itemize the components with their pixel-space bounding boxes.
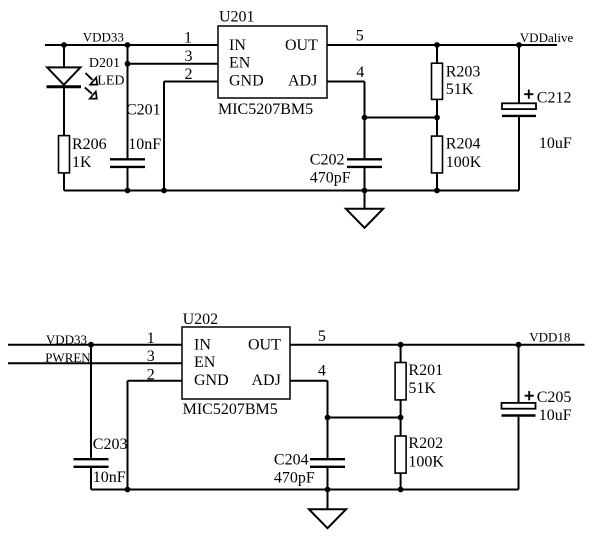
svg-text:VDD33: VDD33 (83, 29, 124, 44)
svg-text:PWREN: PWREN (45, 350, 91, 365)
svg-text:10nF: 10nF (93, 469, 126, 486)
svg-text:470pF: 470pF (310, 169, 351, 186)
svg-text:100K: 100K (446, 154, 482, 171)
svg-text:C201: C201 (126, 101, 161, 118)
svg-text:IN: IN (194, 336, 211, 353)
svg-text:10uF: 10uF (539, 135, 572, 152)
svg-text:5: 5 (318, 328, 326, 345)
svg-text:R202: R202 (408, 435, 443, 452)
svg-text:EN: EN (229, 54, 251, 71)
svg-text:ADJ: ADJ (288, 72, 317, 89)
svg-text:470pF: 470pF (274, 470, 315, 487)
svg-text:U201: U201 (219, 9, 255, 26)
svg-text:4: 4 (356, 64, 364, 81)
svg-text:1: 1 (147, 330, 155, 347)
svg-text:VDDalive: VDDalive (520, 30, 574, 45)
svg-text:R204: R204 (446, 136, 481, 153)
svg-text:OUT: OUT (285, 37, 318, 54)
svg-text:R203: R203 (446, 63, 481, 80)
svg-text:IN: IN (229, 37, 246, 54)
svg-text:U202: U202 (183, 311, 219, 328)
svg-text:GND: GND (229, 72, 264, 89)
svg-text:EN: EN (194, 354, 216, 371)
svg-text:100K: 100K (408, 453, 444, 470)
svg-text:5: 5 (356, 28, 364, 45)
svg-text:3: 3 (185, 48, 193, 65)
svg-text:MIC5207BM5: MIC5207BM5 (183, 401, 278, 418)
svg-text:C212: C212 (537, 90, 572, 107)
svg-text:10nF: 10nF (128, 136, 161, 153)
svg-text:MIC5207BM5: MIC5207BM5 (218, 101, 313, 118)
svg-text:VDD33: VDD33 (46, 332, 87, 347)
svg-text:D201: D201 (89, 56, 120, 71)
svg-text:2: 2 (185, 66, 193, 83)
svg-text:1K: 1K (72, 154, 92, 171)
svg-text:C205: C205 (537, 389, 572, 406)
svg-text:1: 1 (184, 29, 192, 46)
svg-text:3: 3 (147, 348, 155, 365)
svg-text:51K: 51K (408, 380, 436, 397)
svg-text:51K: 51K (446, 81, 474, 98)
svg-text:4: 4 (318, 363, 326, 380)
svg-text:ADJ: ADJ (252, 372, 281, 389)
svg-text:VDD18: VDD18 (529, 330, 570, 345)
svg-text:LED: LED (97, 74, 124, 89)
svg-text:C204: C204 (274, 452, 309, 469)
svg-text:2: 2 (147, 366, 155, 383)
svg-text:OUT: OUT (248, 336, 281, 353)
svg-text:R206: R206 (72, 136, 107, 153)
svg-text:C202: C202 (310, 151, 345, 168)
svg-text:R201: R201 (408, 362, 443, 379)
svg-text:C203: C203 (93, 436, 128, 453)
svg-text:10uF: 10uF (539, 407, 572, 424)
svg-text:GND: GND (194, 372, 229, 389)
